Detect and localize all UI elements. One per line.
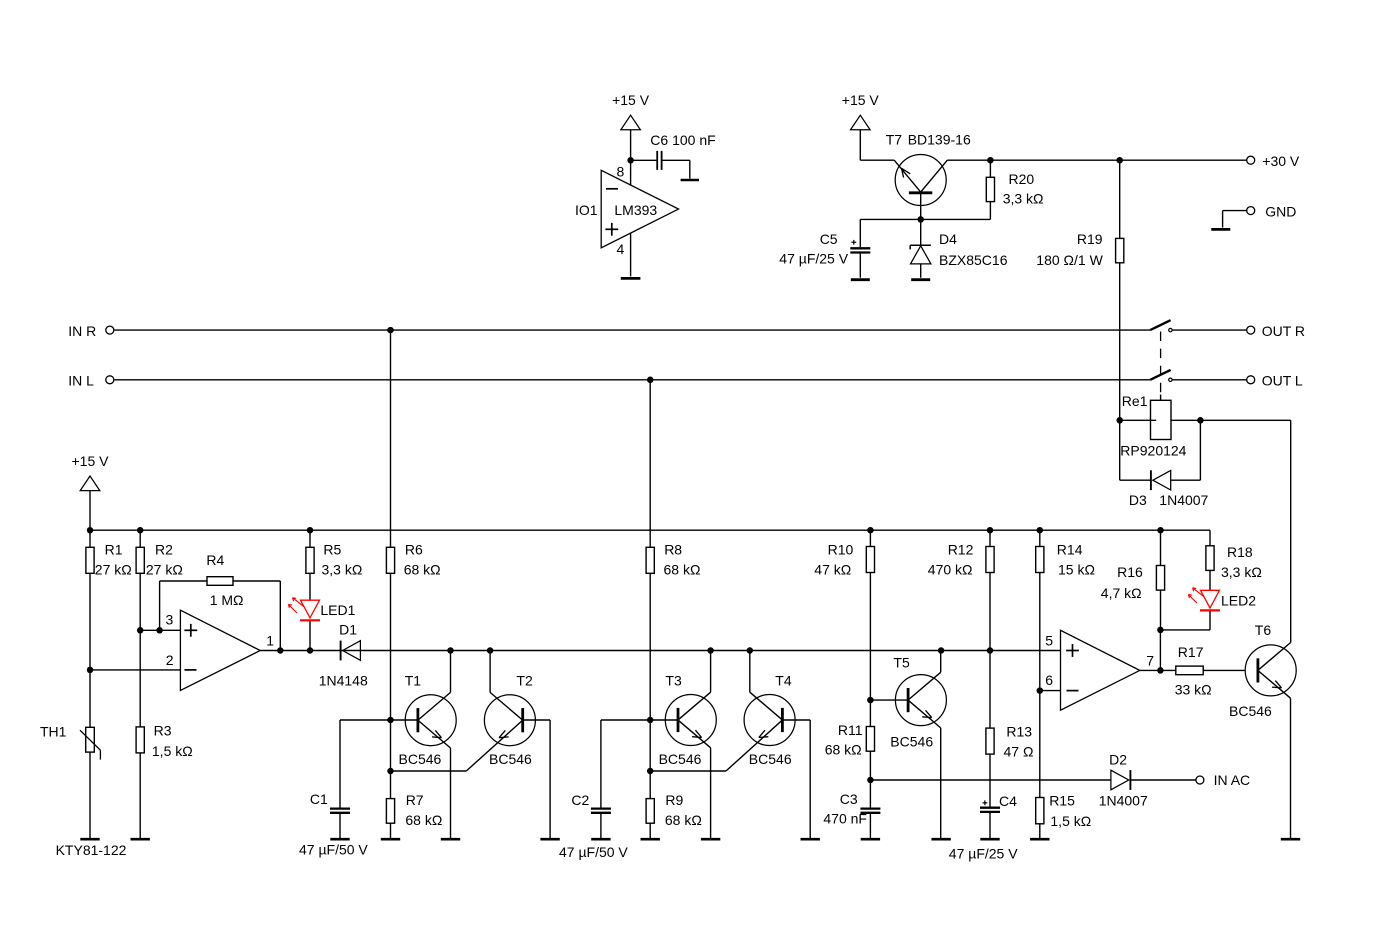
wire relay left lead — [1120, 419, 1157, 421]
op-amp U2 (temperature comparator) — [166, 610, 275, 690]
resistor R8 — [646, 541, 700, 771]
svg-text:68 kΩ: 68 kΩ — [405, 812, 442, 828]
node R11 bottom — [867, 777, 874, 784]
transistor T6 BC546 — [1229, 622, 1296, 838]
wire T4 emitter link — [650, 770, 726, 772]
svg-text:R7: R7 — [406, 792, 424, 808]
svg-text:68 kΩ: 68 kΩ — [825, 741, 862, 757]
node R7 top — [387, 768, 394, 775]
svg-text:BC546: BC546 — [890, 733, 933, 749]
svg-text:D3: D3 — [1129, 492, 1147, 508]
svg-text:1N4007: 1N4007 — [1099, 793, 1148, 809]
svg-text:27 kΩ: 27 kΩ — [146, 562, 183, 578]
svg-text:47 µF/50 V: 47 µF/50 V — [299, 841, 368, 857]
transistor T3 BC546 — [659, 651, 717, 839]
wire T2 emitter link — [391, 770, 467, 772]
svg-text:R13: R13 — [1006, 723, 1032, 739]
wire +15V to IO1 pin 8 — [630, 130, 632, 185]
power +15V (T7 emitter) — [842, 92, 880, 130]
svg-text:T7: T7 — [886, 132, 903, 148]
svg-text:D1: D1 — [339, 621, 357, 637]
ground (IO1 pin 4) — [621, 277, 641, 280]
node T7 base junction — [917, 216, 924, 223]
node rail R5 — [307, 527, 314, 534]
ground (T5 emitter) — [931, 838, 950, 841]
node rail R12 — [987, 527, 994, 534]
node rail R10 — [867, 527, 874, 534]
wire T4 base to ground — [782, 720, 810, 838]
resistor R2 — [136, 530, 183, 727]
svg-text:68 kΩ: 68 kΩ — [665, 812, 702, 828]
ground (T3 emitter) — [701, 838, 720, 841]
ground (GND terminal) — [1211, 228, 1230, 231]
svg-text:3,3 kΩ: 3,3 kΩ — [1221, 564, 1262, 580]
svg-text:+15 V: +15 V — [72, 453, 110, 469]
terminal OUT R — [1247, 323, 1305, 339]
svg-text:47 µF/50 V: 47 µF/50 V — [559, 844, 628, 860]
svg-text:C5: C5 — [820, 231, 838, 247]
node T2 collector — [487, 647, 494, 654]
wire +15V to rail — [89, 491, 91, 531]
node R12/R13 — [987, 647, 994, 654]
capacitor C6 — [650, 132, 715, 170]
node T4 collector — [747, 647, 754, 654]
svg-text:R2: R2 — [155, 541, 173, 557]
node op-amp pin2 tap — [87, 667, 94, 674]
node R4 tap — [156, 627, 163, 634]
node rail R2 — [137, 527, 144, 534]
wire +15V rail — [90, 530, 1210, 546]
resistor R15 — [1036, 691, 1092, 839]
node IO1 pin8 / C6 junction — [627, 157, 634, 164]
svg-text:47 µF/25 V: 47 µF/25 V — [949, 846, 1018, 862]
svg-text:GND: GND — [1265, 203, 1296, 219]
wire op-amp pin3 — [140, 629, 180, 631]
resistor R17 — [1175, 644, 1245, 698]
ground (D4) — [911, 278, 930, 281]
svg-text:LED2: LED2 — [1221, 593, 1256, 609]
diode D4 BZX85C16 — [910, 219, 1007, 277]
node IN R tap — [387, 327, 394, 334]
resistor R12 — [928, 530, 994, 650]
LED LED2 — [1160, 588, 1256, 630]
relay contact (OUT L) — [1150, 370, 1247, 382]
node R9 top — [647, 768, 654, 775]
wire C6 left lead — [631, 159, 657, 161]
svg-text:R9: R9 — [665, 792, 683, 808]
svg-text:+30 V: +30 V — [1262, 153, 1300, 169]
wire comparator output bus — [260, 650, 1060, 652]
svg-text:R4: R4 — [206, 552, 224, 568]
svg-text:R11: R11 — [838, 722, 863, 738]
thermistor TH1 KTY81-122 — [40, 724, 127, 859]
svg-text:6: 6 — [1045, 672, 1053, 688]
svg-text:T2: T2 — [516, 672, 533, 688]
svg-text:R6: R6 — [405, 541, 423, 557]
power +15V (bottom rail) — [72, 453, 110, 491]
resistor R10 — [814, 530, 874, 700]
svg-text:IO1: IO1 — [575, 202, 598, 218]
svg-text:1: 1 — [266, 632, 274, 648]
resistor R1 — [86, 530, 132, 727]
ground (C4) — [980, 838, 999, 841]
resistor R5 — [306, 530, 362, 600]
wire op-amp output — [1140, 669, 1176, 671]
capacitor C4 — [949, 793, 1018, 862]
svg-text:R15: R15 — [1049, 793, 1075, 809]
node R4 out — [277, 647, 284, 654]
ground (T6 emitter) — [1281, 838, 1300, 841]
transistor T4 BC546 — [726, 651, 795, 772]
relay coil Re1 — [1120, 393, 1186, 459]
svg-text:BD139-16: BD139-16 — [908, 132, 971, 148]
svg-text:27 kΩ: 27 kΩ — [95, 562, 132, 578]
wire T7 base line — [860, 218, 990, 220]
terminal IN R — [68, 323, 114, 339]
resistor R19 — [1036, 160, 1123, 420]
svg-text:47 Ω: 47 Ω — [1004, 743, 1034, 759]
svg-text:Re1: Re1 — [1122, 393, 1148, 409]
ground (TH1) — [80, 838, 99, 841]
svg-text:R16: R16 — [1117, 564, 1143, 580]
node T3 collector — [707, 647, 714, 654]
wire T3 base lead — [650, 719, 678, 721]
svg-text:BC546: BC546 — [399, 751, 442, 767]
svg-text:5: 5 — [1045, 632, 1053, 648]
svg-text:C1: C1 — [310, 791, 328, 807]
svg-text:D4: D4 — [939, 231, 957, 247]
wire relay right lead — [1171, 419, 1200, 421]
svg-text:T5: T5 — [893, 655, 910, 671]
terminal GND — [1223, 203, 1297, 227]
svg-text:T6: T6 — [1255, 622, 1272, 638]
wire D2 line — [870, 779, 1111, 781]
svg-text:R10: R10 — [828, 541, 854, 557]
wire T5 base lead — [870, 699, 908, 701]
wire +15V to T7 emitter — [860, 130, 894, 160]
resistor R18 — [1206, 544, 1262, 590]
svg-text:IN L: IN L — [68, 373, 94, 389]
svg-text:D2: D2 — [1109, 752, 1127, 768]
diode D1 1N4148 — [319, 621, 368, 688]
node LED1 out — [307, 647, 314, 654]
svg-text:R3: R3 — [154, 722, 172, 738]
node IN L tap — [647, 377, 654, 384]
svg-text:4: 4 — [617, 241, 625, 257]
ground (C6) — [681, 179, 699, 182]
resistor R9 — [646, 771, 702, 838]
svg-text:C2: C2 — [571, 792, 589, 808]
svg-text:OUT R: OUT R — [1262, 323, 1305, 339]
terminal IN AC — [1196, 772, 1250, 788]
svg-text:+15 V: +15 V — [612, 92, 650, 108]
wire output up to LED2 node — [1159, 630, 1161, 671]
terminal IN L — [68, 373, 114, 389]
wire D3 right leg — [1171, 420, 1201, 480]
capacitor C1 — [299, 720, 391, 857]
svg-text:15 kΩ: 15 kΩ — [1058, 562, 1095, 578]
svg-text:1,5 kΩ: 1,5 kΩ — [152, 743, 193, 759]
svg-text:LED1: LED1 — [320, 602, 355, 618]
svg-text:RP920124: RP920124 — [1120, 443, 1186, 459]
ground (R15) — [1030, 838, 1049, 841]
svg-text:1N4148: 1N4148 — [319, 673, 368, 689]
svg-text:C4: C4 — [999, 793, 1017, 809]
node op-amp2 output — [1157, 667, 1164, 674]
wire relay to T6 collector — [1200, 420, 1290, 642]
wire IN L tap down to R8 — [649, 380, 651, 548]
ground (R3) — [131, 838, 150, 841]
capacitor C3 — [823, 780, 880, 838]
svg-text:1 MΩ: 1 MΩ — [210, 592, 244, 608]
svg-text:T4: T4 — [775, 672, 792, 688]
node T3 base — [647, 717, 654, 724]
svg-text:33 kΩ: 33 kΩ — [1175, 682, 1212, 698]
svg-text:KTY81-122: KTY81-122 — [56, 842, 127, 858]
svg-text:68 kΩ: 68 kΩ — [664, 562, 701, 578]
svg-text:+15 V: +15 V — [842, 92, 880, 108]
resistor R3 — [136, 722, 193, 838]
svg-text:R17: R17 — [1178, 644, 1204, 660]
power +15V (IO1 supply) — [612, 92, 650, 130]
svg-text:BC546: BC546 — [659, 751, 702, 767]
svg-text:470 nF: 470 nF — [823, 810, 867, 826]
svg-text:1,5 kΩ: 1,5 kΩ — [1050, 813, 1091, 829]
svg-text:BC546: BC546 — [749, 751, 792, 767]
svg-text:LM393: LM393 — [614, 202, 657, 218]
svg-text:3,3 kΩ: 3,3 kΩ — [1003, 191, 1044, 207]
svg-text:R18: R18 — [1227, 544, 1253, 560]
svg-text:R14: R14 — [1057, 541, 1083, 557]
wire IN L line — [114, 379, 1150, 381]
wire T7 collector to +30V rail — [947, 159, 1247, 161]
resistor R4 — [160, 552, 281, 650]
resistor R20 — [986, 160, 1043, 219]
transistor T1 BC546 — [399, 651, 457, 839]
svg-text:180 Ω/1 W: 180 Ω/1 W — [1036, 252, 1103, 268]
resistor R6 — [386, 541, 440, 771]
svg-text:TH1: TH1 — [40, 724, 67, 740]
ground (R7) — [381, 838, 400, 841]
wire IN R line — [114, 329, 1150, 331]
svg-text:IN R: IN R — [68, 323, 96, 339]
capacitor C5 — [779, 219, 870, 277]
ground (C5) — [851, 278, 870, 281]
ground (T2 base) — [540, 838, 559, 841]
svg-text:T3: T3 — [665, 672, 682, 688]
node rail R16 — [1157, 527, 1164, 534]
LED LED1 — [288, 598, 355, 651]
op-amp U3 (AC detector comparator) — [1045, 630, 1154, 710]
transistor T2 BC546 — [466, 651, 535, 772]
node R19 top — [1116, 157, 1123, 164]
svg-text:BZX85C16: BZX85C16 — [939, 252, 1008, 268]
node relay right — [1197, 417, 1204, 424]
resistor R16 — [1101, 530, 1165, 630]
svg-text:68 kΩ: 68 kΩ — [404, 562, 441, 578]
wire D2 to IN AC — [1130, 779, 1196, 781]
relay actuator dashed link — [1160, 332, 1162, 401]
transistor T5 BC546 — [890, 651, 946, 839]
ground (C1) — [330, 838, 349, 841]
diode D2 1N4007 — [1099, 752, 1148, 809]
svg-text:1N4007: 1N4007 — [1159, 492, 1208, 508]
node rail R14 — [1037, 527, 1044, 534]
ground (C3) — [861, 838, 880, 841]
terminal OUT L — [1247, 373, 1303, 389]
resistor R13 — [986, 651, 1034, 807]
svg-text:R5: R5 — [323, 541, 341, 557]
wire op-amp pin2 — [90, 669, 180, 671]
svg-text:OUT L: OUT L — [1262, 373, 1303, 389]
resistor R7 — [386, 771, 442, 838]
terminal +30 V — [1247, 153, 1300, 169]
node T1 collector — [447, 647, 454, 654]
ground (C2) — [591, 838, 610, 841]
svg-text:47 kΩ: 47 kΩ — [814, 562, 851, 578]
node R16/LED2 bottom — [1157, 627, 1164, 634]
relay contact (OUT R) — [1150, 320, 1247, 332]
wire IO1 pin 4 — [630, 233, 632, 276]
node T1 base — [387, 717, 394, 724]
svg-text:C6 100 nF: C6 100 nF — [650, 132, 715, 148]
capacitor C2 — [559, 720, 650, 860]
svg-text:7: 7 — [1146, 653, 1154, 669]
node relay left — [1116, 417, 1123, 424]
svg-text:47 µF/25 V: 47 µF/25 V — [779, 250, 848, 266]
ground (R9) — [641, 838, 660, 841]
svg-text:4,7 kΩ: 4,7 kΩ — [1101, 585, 1142, 601]
resistor R11 — [825, 700, 875, 780]
wire T2 base to ground — [523, 720, 550, 838]
node rail R1 — [87, 527, 94, 534]
svg-text:BC546: BC546 — [489, 751, 532, 767]
svg-text:R19: R19 — [1077, 231, 1103, 247]
wire C6 to ground — [662, 160, 689, 178]
wire T1 base lead — [391, 719, 418, 721]
svg-text:3,3 kΩ: 3,3 kΩ — [322, 562, 363, 578]
op-amp IO1 LM393 — [575, 163, 679, 257]
node T5 collector — [938, 647, 945, 654]
ground (T1 emitter) — [441, 838, 460, 841]
wire IN R tap down to R6 — [390, 330, 392, 547]
resistor R14 — [1036, 530, 1095, 690]
svg-text:R12: R12 — [948, 541, 974, 557]
node op-amp pin3 tap — [137, 627, 144, 634]
svg-text:R1: R1 — [105, 541, 123, 557]
node T5 base — [867, 697, 874, 704]
node op-amp pin6 — [1037, 687, 1044, 694]
svg-text:IN AC: IN AC — [1214, 772, 1251, 788]
diode D3 1N4007 — [1129, 470, 1209, 508]
svg-text:R20: R20 — [1009, 171, 1035, 187]
svg-text:2: 2 — [166, 652, 174, 668]
svg-text:C3: C3 — [840, 791, 858, 807]
svg-text:BC546: BC546 — [1229, 703, 1272, 719]
wire D3 left leg — [1120, 420, 1151, 480]
transistor T7 BD139-16 — [886, 132, 971, 220]
svg-text:8: 8 — [617, 163, 625, 179]
node R20 top — [987, 157, 994, 164]
ground (T4 base) — [801, 838, 820, 841]
svg-text:470 kΩ: 470 kΩ — [928, 562, 973, 578]
svg-text:3: 3 — [166, 612, 174, 628]
svg-text:R8: R8 — [664, 541, 682, 557]
svg-text:T1: T1 — [405, 672, 422, 688]
wire op-amp pin6 lead — [1040, 690, 1061, 692]
